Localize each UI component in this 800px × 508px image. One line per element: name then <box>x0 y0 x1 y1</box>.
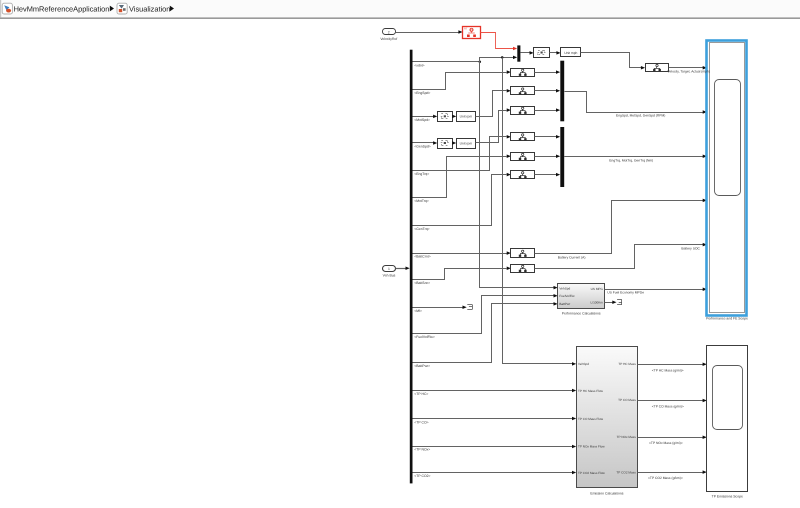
svg-text:<BattCrnt>: <BattCrnt> <box>414 255 430 259</box>
svg-text:Visualization: Visualization <box>129 4 170 13</box>
svg-text:<TP HC>: <TP HC> <box>414 392 428 396</box>
subsystem Emission Calculations <box>577 347 638 488</box>
rate transition MotSpd <box>438 112 453 122</box>
svg-text:<GenTrq>: <GenTrq> <box>414 227 429 231</box>
wire velocity mux to rate transition <box>520 52 530 54</box>
svg-text:<TP CO Mass (g/mi)>: <TP CO Mass (g/mi)> <box>652 404 684 408</box>
wire US MPG to scope <box>605 289 704 291</box>
rate transition before scope (velocity) <box>646 64 669 72</box>
svg-text:Battery Current (A): Battery Current (A) <box>558 256 586 260</box>
svg-text:Unit rpm: Unit rpm <box>460 115 473 119</box>
inport 1 Veh Bus <box>383 266 396 272</box>
wire rt to Unit mph <box>549 52 557 54</box>
wire <TP NOx Mass (g/mi)> to TP Emissions Scope <box>638 437 704 439</box>
svg-text:<TP NOx>: <TP NOx> <box>414 448 430 452</box>
wire GenTrq to row6 block <box>413 175 507 226</box>
rpm mux bar <box>560 61 564 122</box>
unit conversion Unit rpm 1 <box>457 112 476 122</box>
svg-text:<EngSpd>: <EngSpd> <box>414 91 430 95</box>
wire row6 rate transition (GenTrq) to mux <box>534 174 556 176</box>
wire Unit mph to velocity rate transition 2 <box>581 53 642 68</box>
wire <TP HC Mass (g/mi)> to TP Emissions Scope <box>638 364 704 366</box>
wire GenSpd rt to Unit rpm 2 <box>451 142 454 144</box>
scope Performance and FE Scope <box>707 41 747 316</box>
svg-text:<FuelVolFlw>: <FuelVolFlw> <box>414 335 435 339</box>
wire xdot riser to velocity mux <box>480 58 514 62</box>
wire TP HC to Emission Calculations <box>413 390 573 392</box>
breadcrumb separator 2 <box>170 6 174 12</box>
bus selector bar <box>410 50 413 484</box>
model icon (HevMmReferenceApplication) <box>2 3 12 14</box>
wire L/100Km to terminator <box>605 302 613 304</box>
wire <TP CO Mass (g/mi)> to TP Emissions Scope <box>638 400 704 402</box>
rate transition GenSpd <box>438 139 453 149</box>
wire MotTrq to row5 block <box>413 157 507 198</box>
svg-text:VehSpd: VehSpd <box>559 287 570 291</box>
svg-text:<BattSoc>: <BattSoc> <box>414 281 430 285</box>
svg-text:Performance and FE Scope: Performance and FE Scope <box>706 317 748 321</box>
wire row1 rate transition (EngSpd) to mux <box>534 72 556 74</box>
unit conversion Unit rpm 2 <box>457 139 476 149</box>
svg-text:TP NOx Mass: TP NOx Mass <box>617 435 637 439</box>
row2 rate transition (MotSpd) <box>511 87 535 95</box>
svg-text:TP Emissions Scope: TP Emissions Scope <box>712 494 743 498</box>
wire TP CO2 to Emission Calculations <box>413 472 573 474</box>
wire EngSpd to row1 block <box>413 73 507 90</box>
wire xdot branch to Emission Calculations VehSpd <box>503 58 573 364</box>
svg-text:<GenSpd>: <GenSpd> <box>414 145 430 149</box>
svg-text:FuelVolFlw: FuelVolFlw <box>559 294 575 298</box>
unit conversion Unit mph <box>561 48 581 57</box>
svg-text:<TP CO2>: <TP CO2> <box>414 474 430 478</box>
svg-text:TP NOx Mass Flow: TP NOx Mass Flow <box>578 445 605 449</box>
terminator for L/100Km <box>617 299 622 301</box>
svg-text:Veh Bus: Veh Bus <box>383 274 396 278</box>
torque mux bar <box>560 127 564 187</box>
svg-text:US MPG: US MPG <box>591 287 604 291</box>
breadcrumb toolbar background <box>0 0 800 17</box>
wire rpm mux to scope <box>565 92 704 113</box>
svg-text:TP CO Mass Flow: TP CO Mass Flow <box>578 417 604 421</box>
svg-text:<TP CO>: <TP CO> <box>414 420 428 424</box>
wire BattSoc to battery soc block <box>413 269 507 280</box>
battery current rate transition <box>511 249 535 258</box>
rate transition velocity <box>534 48 550 58</box>
wire TP NOx to Emission Calculations <box>413 446 573 448</box>
svg-text:Performance Calculations: Performance Calculations <box>562 312 601 316</box>
wire EngTrq to row4 block <box>413 137 507 171</box>
wire Unit rpm 2 to row3 block <box>476 111 507 143</box>
svg-text:TP HC Mass Flow: TP HC Mass Flow <box>578 389 604 393</box>
svg-text:<TP CO2 Mass (g/km)>: <TP CO2 Mass (g/km)> <box>648 476 683 480</box>
terminator for Mf <box>467 304 472 306</box>
row4 rate transition (EngTrq) <box>511 133 535 141</box>
wire MotSpd to rate transition <box>413 116 434 118</box>
svg-text:Unit mph: Unit mph <box>564 51 577 55</box>
svg-text:Velocity, Target, Actual (mph): Velocity, Target, Actual (mph) <box>668 70 710 74</box>
wire row5 rate transition (MotTrq) to mux <box>534 156 556 158</box>
svg-text:EngSpd, MotSpd, GenSpd (RPM): EngSpd, MotSpd, GenSpd (RPM) <box>616 114 665 118</box>
row3 rate transition (GenSpd) <box>511 107 535 115</box>
svg-text:2: 2 <box>388 31 390 35</box>
wire velocity to scope <box>669 67 703 69</box>
inport 2 VelocityRef <box>383 29 396 35</box>
velocity mux bar <box>517 45 520 61</box>
svg-text:VelocityRef: VelocityRef <box>380 37 397 41</box>
subsystem Performance Calculations <box>558 284 605 309</box>
svg-text:TP CO2 Mass: TP CO2 Mass <box>616 470 636 474</box>
svg-text:<xdot>: <xdot> <box>414 63 424 67</box>
junction dot xdot branch 2 <box>501 56 504 59</box>
wire row3 rate transition (GenSpd) to mux <box>534 110 556 112</box>
breadcrumb separator 1 <box>110 6 114 12</box>
wire <TP CO2 Mass (g/km)> to TP Emissions Scope <box>638 472 704 474</box>
wire row2 rate transition (MotSpd) to mux <box>534 90 556 92</box>
svg-text:TP CO2 Mass Flow: TP CO2 Mass Flow <box>578 471 606 475</box>
wire xdot tap <box>413 61 480 63</box>
svg-text:BattPwr: BattPwr <box>559 302 570 306</box>
svg-text:<Mf>: <Mf> <box>414 309 422 313</box>
wire FuelVolFlw to Performance Calculations <box>413 296 555 334</box>
wire Veh Bus to bus selector <box>396 268 406 270</box>
wire GenSpd to rate transition <box>413 142 434 144</box>
wire battery soc to scope <box>535 245 704 269</box>
svg-text:<TP NOx Mass (g/mi)>: <TP NOx Mass (g/mi)> <box>649 441 683 445</box>
svg-text:<BattPwr>: <BattPwr> <box>414 364 430 368</box>
svg-text:<MotSpd>: <MotSpd> <box>414 118 430 122</box>
svg-text:RT: RT <box>464 27 468 30</box>
junction dot xdot branch 1 <box>479 61 482 64</box>
svg-text:L/100Km: L/100Km <box>591 301 604 305</box>
wire xdot branch to Performance Calculations VehSpd <box>480 58 555 288</box>
svg-text:Unit rpm: Unit rpm <box>460 141 473 145</box>
svg-text:EngTrq, MotTrq, GenTrq (Nm): EngTrq, MotTrq, GenTrq (Nm) <box>609 159 653 163</box>
wire VelocityRef to red rate transition <box>395 32 459 34</box>
svg-text:Battery SOC: Battery SOC <box>681 247 700 251</box>
svg-text:1: 1 <box>388 267 390 271</box>
wire battery current to scope <box>535 201 704 254</box>
svg-text:Emission Calculations: Emission Calculations <box>590 492 623 496</box>
red rate transition block <box>463 27 481 39</box>
wire row4 rate transition (EngTrq) to mux <box>534 136 556 138</box>
battery soc rate transition <box>511 265 535 273</box>
svg-text:HevMmReferenceApplication: HevMmReferenceApplication <box>14 4 110 13</box>
wire MotSpd rt to Unit rpm 1 <box>451 116 454 118</box>
wire BattCrnt to battery current block <box>413 253 508 255</box>
svg-text:US Fuel Economy MPGe: US Fuel Economy MPGe <box>607 291 644 295</box>
svg-text:TP HC Mass: TP HC Mass <box>618 362 636 366</box>
wire TP CO to Emission Calculations <box>413 418 573 420</box>
row1 rate transition (EngSpd) <box>511 69 535 77</box>
svg-text:VehSpd: VehSpd <box>578 362 589 366</box>
subsystem icon (Visualization) <box>117 3 127 14</box>
svg-text:<TP HC Mass (g/mi)>: <TP HC Mass (g/mi)> <box>652 369 684 373</box>
red wire to velocity mux <box>481 33 514 49</box>
svg-text:<MotTrq>: <MotTrq> <box>414 199 429 203</box>
row5 rate transition (MotTrq) <box>511 153 535 161</box>
row6 rate transition (GenTrq) <box>511 171 535 179</box>
wire BattPwr to Performance Calculations <box>413 304 555 363</box>
svg-text:TP CO Mass: TP CO Mass <box>618 398 636 402</box>
wire Mf to terminator <box>413 307 464 309</box>
scope TP Emissions Scope <box>707 346 748 492</box>
wire Unit rpm 1 to row2 block <box>476 91 507 117</box>
svg-text:<EngTrq>: <EngTrq> <box>414 172 429 176</box>
wire torque mux to scope <box>564 156 703 158</box>
